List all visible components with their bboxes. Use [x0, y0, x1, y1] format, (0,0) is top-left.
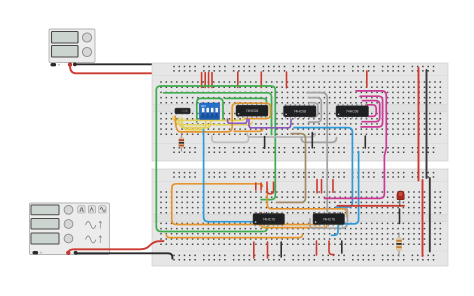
- wire black jumper U1 to rail: [264, 137, 266, 149]
- wire purple 1: [228, 119, 248, 123]
- wire blue U2 to BB2: [294, 128, 352, 207]
- svg-text:74HC76: 74HC76: [323, 217, 336, 221]
- wire magenta hook U3 b: [362, 101, 380, 122]
- svg-text:ON: ON: [201, 104, 206, 108]
- wire red rail jumper J1 BB1: [201, 73, 203, 88]
- power supply PS1: [49, 29, 95, 66]
- wire red jumper BB2 b: [260, 183, 262, 190]
- wire red FG1+ to BB2 row: [68, 241, 163, 252]
- wire yellow 1: [173, 117, 245, 120]
- wire green over DIP switch: [197, 98, 223, 122]
- wire orange U4 to U5 under: [261, 222, 327, 228]
- wire red jumper BB2 c: [316, 180, 318, 193]
- resistor R2: [396, 233, 401, 257]
- terminal FG1 + (red): [66, 251, 70, 255]
- wire gray around U5 BB2: [310, 206, 348, 228]
- IC U2 74HC08: [284, 104, 317, 119]
- wire red BB2 top rail to bottom rail: [422, 180, 424, 256]
- wire red rail jumper J6 BB1: [260, 72, 262, 88]
- svg-text:74HC08: 74HC08: [246, 109, 259, 113]
- wire gray row link BB1: [247, 133, 315, 137]
- wire black FG1- to BB2 rail: [76, 253, 172, 258]
- terminal PS1 + (red): [68, 63, 72, 67]
- wire blue BB1 rail to BB2: [332, 152, 359, 236]
- wire red jumper BB2 a: [255, 183, 257, 190]
- wire red jumper BB2 i: [316, 241, 318, 255]
- wire red BB1 rail to BB2 rail (right): [418, 68, 420, 181]
- wire orange bottom long BB2: [166, 235, 302, 238]
- wire gray rail link BB1: [301, 138, 336, 143]
- wire black BB2 top rail to bottom rail: [429, 178, 431, 252]
- wire red PS1+ to BB1 top rail: [70, 66, 175, 74]
- wire red jumper BB2 e: [332, 180, 334, 193]
- wire black jumper LED cathode: [399, 209, 401, 224]
- wire black PS1- to BB1 top rail: [76, 64, 172, 71]
- wire magenta long U3 to BB2: [325, 91, 387, 198]
- IC U5 74HC76: [313, 212, 345, 227]
- wire orange big loop BB2: [172, 184, 321, 225]
- wire orange around IC U1: [175, 103, 270, 132]
- wire red jumper BB2 j: [329, 241, 334, 255]
- terminal PS1 - (black): [73, 63, 77, 67]
- wire orange bundle to U1 pin: [234, 128, 263, 131]
- wire red LED feed BB2: [338, 205, 405, 207]
- wire red jumper BB2 f: [253, 242, 255, 258]
- wire black jumper U2 to rail: [311, 133, 313, 148]
- resistor R1: [179, 133, 184, 152]
- svg-text:74HC08: 74HC08: [294, 110, 307, 114]
- wire yellow 2: [176, 117, 253, 124]
- svg-text:74HC08: 74HC08: [346, 110, 359, 114]
- wire gray U-link BB1: [212, 136, 249, 143]
- wire blue DIP to BB2: [204, 130, 258, 222]
- wire black BB1 rail to BB2 rail (right): [426, 70, 428, 178]
- IC U1 74HC08: [236, 103, 268, 118]
- wire red U-loop BB2: [267, 182, 274, 194]
- wire gray hook U2 b: [310, 103, 318, 117]
- wire red rail jumper J5 BB1: [237, 72, 239, 88]
- IC X1 (small): [175, 108, 190, 114]
- wire purple 2: [249, 120, 291, 128]
- wire red rail jumper J7 BB1: [366, 71, 368, 87]
- wire green DIP to U1: [225, 98, 267, 102]
- breadboard BB1: [152, 63, 448, 161]
- wire red rail jumper J4 BB1: [211, 73, 213, 88]
- wire red rail jumper J3 BB1: [208, 73, 210, 88]
- wire yellow 3: [179, 118, 211, 128]
- svg-text:74HC76: 74HC76: [263, 217, 276, 221]
- wire gray long U2 to BB2: [307, 93, 327, 212]
- wire green big loop BB1 to BB2: [156, 86, 275, 232]
- LED D1: [397, 191, 404, 207]
- wire black jumper BB2 k: [341, 241, 343, 253]
- wire green second row BB1: [164, 93, 272, 135]
- breadboard BB2: [152, 169, 448, 266]
- wire gray hook U2 a: [309, 98, 322, 123]
- wire brown U2 to BB2: [277, 134, 306, 203]
- wire yellow 4: [182, 118, 206, 129]
- DIP switch S1: [200, 103, 220, 120]
- function generator FG1: [30, 203, 110, 255]
- terminal FG1 - (black): [74, 251, 78, 255]
- wire black jumper BB2 h: [280, 242, 282, 257]
- wire magenta hook U3 c: [366, 105, 376, 117]
- wire red rail jumper J6b BB1: [286, 72, 288, 88]
- wire red jumper BB2 d: [321, 180, 323, 193]
- IC U3 74HC08: [336, 104, 369, 119]
- wire black jumper U3: [364, 136, 366, 148]
- IC U4 74HC76: [253, 212, 285, 227]
- wire magenta hook U3 a: [360, 96, 383, 127]
- wire orange row-to-row BB2: [267, 188, 346, 217]
- wire red jumper BB2 g: [267, 242, 269, 258]
- wire red rail jumper J2 BB1: [204, 73, 206, 88]
